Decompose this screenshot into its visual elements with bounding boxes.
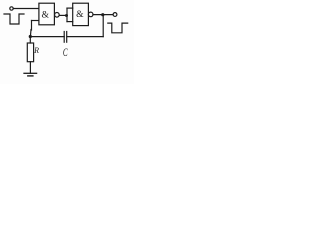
wire DD1.1 lower input down to node A — [31, 21, 33, 31]
svg-text:C: C — [63, 47, 68, 60]
feedback wire vertical from output junction — [102, 15, 104, 37]
ground bar 1 — [24, 72, 37, 74]
output pulse waveform — [108, 23, 128, 33]
gate DD1.2 box — [73, 3, 89, 25]
gate DD1.2 output bubble — [88, 12, 93, 17]
output terminal — [113, 13, 117, 17]
ground bar 2 — [28, 75, 33, 77]
svg-text:&: & — [76, 9, 84, 20]
capacitor C right plate — [66, 32, 68, 43]
wire resistor R to ground — [29, 62, 31, 74]
node A junction dot — [29, 35, 32, 38]
wire input terminal to gate DD1.1 — [13, 8, 39, 10]
junction dot on output wire — [101, 13, 104, 16]
svg-text:R: R — [33, 46, 39, 55]
resistor R body — [27, 43, 33, 62]
gate DD1.2 bottom input pin — [67, 21, 73, 23]
gate DD1.1 lower input pin — [32, 20, 39, 22]
gate DD1.2 input tie bar — [66, 8, 68, 22]
feedback wire horizontal to capacitor — [67, 36, 103, 38]
input terminal — [10, 7, 13, 10]
gate DD1.1 box — [39, 3, 55, 25]
wire node A to resistor R — [29, 37, 31, 43]
gate DD1.2 top input pin — [67, 7, 73, 9]
junction dot on DD1.2 input bar — [65, 14, 68, 17]
gate DD1.1 output bubble — [55, 13, 60, 18]
input pulse waveform — [4, 14, 24, 24]
wire capacitor to node A — [30, 36, 64, 38]
capacitor C left plate — [63, 32, 65, 43]
svg-text:&: & — [41, 10, 49, 21]
wire gate DD1.2 output to output terminal — [93, 14, 113, 16]
wire gate DD1.1 output to gate DD1.2 input bar — [59, 14, 67, 16]
